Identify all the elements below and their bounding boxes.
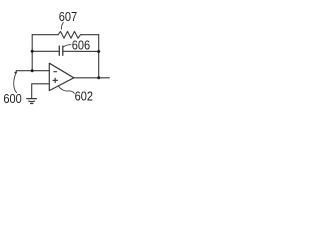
junction node at inverting input xyxy=(31,69,34,72)
svg-text:602: 602 xyxy=(75,89,93,104)
arrowhead for 600 leader xyxy=(14,71,17,75)
junction node at feedback/cap branch left xyxy=(31,50,34,53)
wire feedback left vertical xyxy=(31,35,33,71)
wire top feedback rail left xyxy=(32,34,58,36)
op-amp U602 triangle xyxy=(49,63,74,90)
wire capacitor branch left xyxy=(32,50,59,52)
leader line for 602 xyxy=(58,86,74,93)
wire top feedback rail right xyxy=(82,34,98,36)
svg-text:600: 600 xyxy=(3,91,21,106)
junction node at output xyxy=(97,76,100,79)
leader line for 606 xyxy=(63,45,71,47)
op-amp inverting minus sign xyxy=(54,71,57,73)
wire input to inverting pin xyxy=(16,70,49,72)
ground xyxy=(27,99,37,104)
wire feedback right vertical xyxy=(98,35,100,78)
leader arrow for 600 xyxy=(14,72,17,93)
wire capacitor branch right xyxy=(63,50,99,52)
svg-text:606: 606 xyxy=(72,38,90,53)
svg-text:607: 607 xyxy=(59,9,77,24)
junction node at cap branch right xyxy=(97,50,100,53)
wire output xyxy=(74,77,110,79)
op-amp non-inverting plus sign xyxy=(53,78,57,82)
resistor R607 xyxy=(58,31,82,38)
leader line for 607 xyxy=(61,23,63,30)
wire non-inverting pin to ground xyxy=(32,84,50,98)
capacitor C606 xyxy=(59,46,63,55)
